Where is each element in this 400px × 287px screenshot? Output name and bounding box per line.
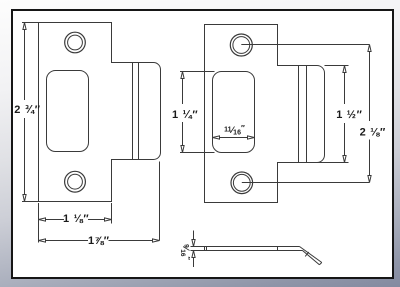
svg-text:1 ⅛″: 1 ⅛″: [63, 213, 89, 225]
thickness dimension extension bottom: [191, 250, 205, 252]
side view strip left end: [204, 247, 206, 251]
dimension 11/16 line and arrows: [213, 136, 255, 139]
svg-text:9⁄16″: 9⁄16″: [179, 244, 191, 260]
left plate top screw hole: [65, 32, 86, 53]
dimension 1 1/2 extension top: [325, 65, 349, 67]
svg-text:11⁄16″: 11⁄16″: [224, 124, 245, 137]
thickness dimension label 9/16 rotated: [179, 244, 191, 260]
side view bent lip: [300, 247, 322, 265]
side view strip top edge: [205, 246, 300, 248]
dimension 1 1/8 label: [63, 213, 89, 225]
svg-text:1 ¼″: 1 ¼″: [172, 109, 198, 121]
thickness dimension extension top: [191, 246, 205, 248]
dimension 2 1/8 label: [360, 127, 386, 139]
side view bend tick 2: [277, 247, 279, 251]
dimension 1 1/2 line and arrows: [343, 66, 346, 163]
side view strip bottom edge: [205, 250, 303, 252]
svg-text:2 ¾″: 2 ¾″: [14, 104, 40, 116]
dimension 1 1/2 label: [336, 109, 362, 121]
right plate lip fold line 1: [298, 66, 300, 163]
dimension 1 1/2 extension bottom: [314, 162, 349, 164]
side view bend tick 1: [206, 247, 208, 251]
dimension 1 1/4 extension top: [180, 71, 215, 73]
dimension 1 7/8 extension right: [159, 162, 161, 241]
side view bend tick 3: [305, 252, 309, 256]
dimension 2 3/4 line and arrows: [23, 23, 26, 202]
dimension 2 3/4 label: [14, 104, 40, 116]
thickness dimension arrows: [192, 231, 195, 268]
dimension 2 1/8 leader from top hole: [241, 44, 369, 46]
right plate top screw hole: [230, 34, 252, 56]
left plate latch opening: [47, 71, 89, 152]
svg-text:1 ½″: 1 ½″: [336, 109, 362, 121]
dimension 1 1/4 line and arrows: [181, 72, 184, 153]
right plate bottom screw hole: [231, 172, 253, 194]
dimension 2 1/8 line and arrows: [368, 45, 371, 183]
svg-text:2 ⅛″: 2 ⅛″: [360, 127, 386, 139]
dimension 1 1/8 extension left (shared with 1 7/8): [38, 203, 40, 243]
dimension 2 3/4 extension top: [22, 22, 39, 24]
dimension 1 7/8 line and arrows: [39, 239, 160, 242]
left plate bottom screw hole: [65, 171, 86, 192]
dimension 1 7/8 label: [88, 235, 110, 247]
svg-text:1⅞″: 1⅞″: [88, 235, 110, 247]
dimension 2 1/8 leader from bottom hole: [242, 182, 370, 184]
dimension 1 1/4 extension bottom: [180, 152, 215, 154]
dimension 1 1/4 label: [172, 109, 198, 121]
dimension 2 3/4 extension bottom: [22, 201, 39, 203]
left plate lip fold line 2: [138, 63, 140, 160]
left plate lip fold line 1: [132, 63, 134, 160]
left plate outline: [39, 23, 161, 202]
dimension 1 1/8 line and arrows: [39, 218, 112, 221]
dimension 11/16 label: [224, 124, 245, 137]
right plate latch opening: [213, 72, 255, 153]
right plate outline: [205, 25, 325, 203]
dimension 1 1/8 extension right: [111, 203, 113, 224]
right plate lip fold line 2: [306, 66, 308, 163]
